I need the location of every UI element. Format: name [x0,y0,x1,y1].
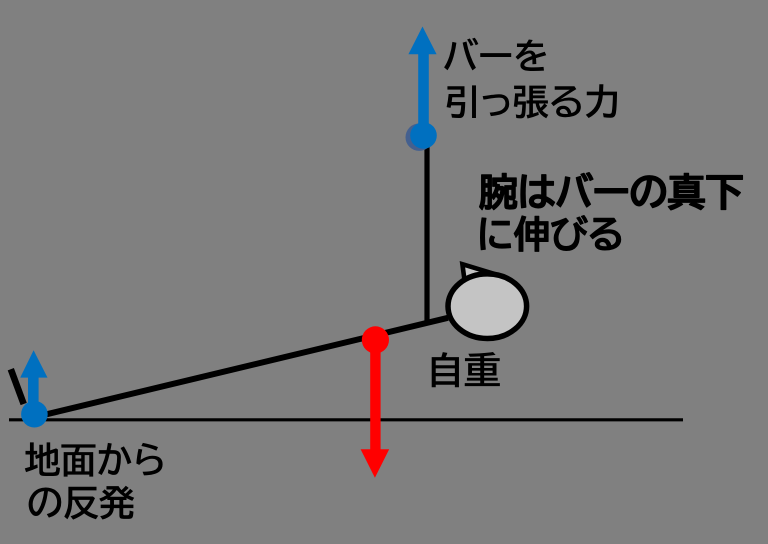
blue arrow bottom: head [20,350,47,377]
label: ground reaction line1: 地面から [25,442,163,476]
label: arm under bar line1: 腕はバーの真下 [480,173,743,210]
red arrow (weight): shaft [370,339,380,451]
arm vertical line (bar to shoulder) [424,132,429,324]
label: ground reaction line2: の反発 [29,486,135,520]
top blue node shadow [406,124,433,151]
blue arrow top: head [408,27,436,55]
red node (center of mass) [362,326,389,353]
red arrow: head [361,449,390,478]
label: body weight: 自重 [432,352,500,387]
label: bar pull force line2: 引っ張る力 [447,84,617,118]
head ellipse [448,274,527,339]
top blue node (bar point) [410,122,437,149]
label: bar pull force line1: バーを [444,38,546,71]
head ellipse shadow? none. head triangle (hair tuft) [462,264,487,279]
bottom blue node (foot contact) [21,401,48,428]
blue arrow top (bar pulling force): shaft [418,52,429,136]
label: arm under bar line2: に伸びる [481,216,621,252]
ground line [9,418,683,421]
barbell stub line (lower left) [11,369,24,404]
blue arrow bottom (ground reaction): shaft [28,375,39,407]
body diagonal line (foot to head) [36,318,448,417]
